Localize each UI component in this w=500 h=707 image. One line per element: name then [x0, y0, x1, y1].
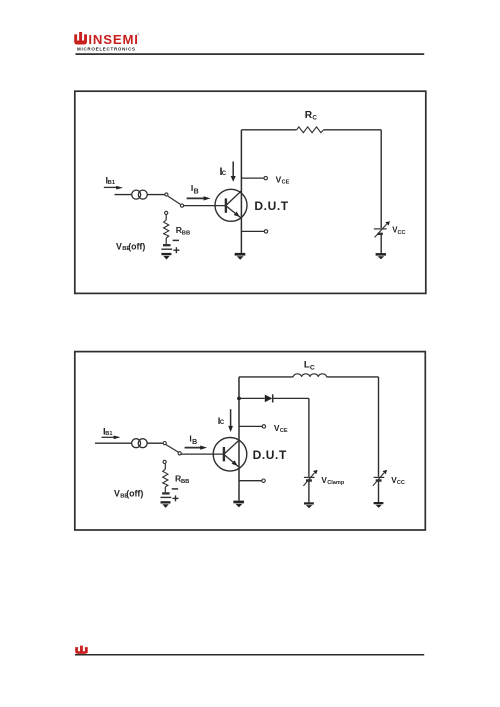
source VClamp — [303, 470, 317, 486]
wire RBB branch — [165, 215, 167, 220]
svg-text:CC: CC — [397, 480, 405, 486]
terminal VCE — [241, 176, 267, 179]
svg-text:INSEMI: INSEMI — [88, 32, 138, 47]
svg-text:B1: B1 — [108, 180, 115, 186]
plus sign — [173, 495, 179, 501]
transistor DUT — [213, 438, 247, 472]
ground (VCC) — [376, 253, 386, 259]
label IB — [191, 183, 199, 196]
current source IB1 — [132, 190, 148, 199]
diode D1 — [265, 394, 273, 402]
arrow IC — [231, 162, 236, 182]
logo WINSEMI wordmark — [74, 31, 140, 52]
svg-text:B: B — [192, 439, 197, 446]
ground (battery) — [161, 253, 171, 260]
svg-text:CC: CC — [398, 230, 406, 236]
resistor RBB — [164, 220, 169, 238]
resistor RC — [297, 127, 324, 133]
svg-text:CE: CE — [280, 428, 288, 434]
current source IB1 — [132, 439, 148, 448]
svg-text:B: B — [194, 189, 199, 196]
wire — [165, 238, 167, 244]
ground (battery) — [161, 501, 171, 508]
transistor DUT — [215, 189, 247, 221]
svg-text:V: V — [114, 489, 120, 499]
switch S1 — [165, 193, 184, 215]
wire — [164, 487, 166, 492]
wire — [380, 235, 382, 254]
circuit 2 — [75, 352, 426, 530]
svg-text:(off): (off) — [126, 489, 143, 499]
label IC — [220, 166, 227, 178]
label IB — [189, 433, 197, 446]
svg-text:C: C — [222, 171, 227, 177]
circuit 1 — [75, 91, 426, 293]
wire right — [378, 377, 380, 477]
label RBB — [175, 474, 189, 486]
wire — [147, 194, 164, 196]
label RBB — [176, 225, 190, 237]
label VBE(off) — [116, 241, 145, 252]
svg-text:®: ® — [137, 31, 141, 37]
svg-text:Clamp: Clamp — [327, 480, 345, 486]
wire base — [181, 453, 223, 455]
svg-text:B1: B1 — [105, 431, 112, 437]
battery VBE(off) — [161, 245, 172, 249]
wire — [115, 194, 132, 196]
label IB1 — [103, 425, 112, 436]
wire — [147, 442, 163, 444]
arrow IB1 — [102, 436, 121, 440]
svg-text:D.U.T: D.U.T — [254, 199, 288, 213]
label RC — [305, 110, 318, 121]
minus sign — [173, 239, 179, 241]
arrow IB — [185, 446, 207, 450]
top wire — [241, 129, 381, 131]
header rule — [76, 53, 425, 55]
resistor RBB — [163, 469, 168, 487]
wire — [239, 397, 265, 399]
arrow IC — [228, 409, 233, 432]
battery VBE(off) — [161, 493, 172, 497]
label VBE(off) — [114, 489, 143, 500]
ground (emitter) — [235, 253, 246, 260]
wire collector vertical — [240, 130, 242, 253]
svg-text:C: C — [220, 420, 225, 426]
wire — [273, 398, 309, 476]
wire RBB branch — [164, 464, 166, 470]
svg-text:D.U.T: D.U.T — [253, 448, 287, 462]
svg-text:CE: CE — [282, 180, 290, 186]
inductor LC — [293, 374, 326, 377]
top wire — [239, 376, 379, 378]
wire base — [184, 205, 226, 207]
ground (VCC) — [374, 502, 384, 508]
emitter terminal — [241, 230, 267, 233]
label VCE — [274, 423, 288, 434]
svg-text:C: C — [312, 114, 317, 121]
wire — [308, 481, 310, 502]
svg-text:(off): (off) — [128, 241, 145, 251]
wire — [378, 481, 380, 502]
arrow IB1 — [104, 186, 123, 190]
label VCC — [392, 226, 405, 236]
junction dot — [237, 397, 241, 401]
label VCC — [391, 476, 405, 486]
switch S1 — [163, 442, 181, 464]
footer rule — [75, 654, 424, 656]
ground (VClamp) — [304, 502, 314, 508]
emitter terminal — [239, 479, 265, 482]
label VClamp — [321, 476, 344, 486]
wire collector vertical — [238, 377, 240, 501]
terminal VCE — [239, 425, 266, 428]
ground (emitter) — [233, 501, 244, 508]
wire — [95, 442, 132, 444]
source VCC — [373, 470, 387, 486]
svg-text:C: C — [310, 364, 315, 371]
label IB1 — [106, 174, 115, 185]
arrow IB — [187, 196, 211, 200]
label VCE — [276, 175, 290, 186]
svg-text:MICROELECTRONICS: MICROELECTRONICS — [77, 47, 136, 52]
svg-text:V: V — [116, 241, 122, 251]
svg-text:BB: BB — [181, 479, 189, 485]
plus sign — [173, 247, 179, 253]
minus sign — [172, 488, 178, 490]
label IC — [218, 415, 225, 426]
source VCC — [374, 221, 390, 237]
footer logo mark — [75, 646, 88, 654]
label LC — [304, 360, 315, 372]
svg-text:BB: BB — [182, 231, 190, 237]
wire right — [380, 130, 382, 228]
